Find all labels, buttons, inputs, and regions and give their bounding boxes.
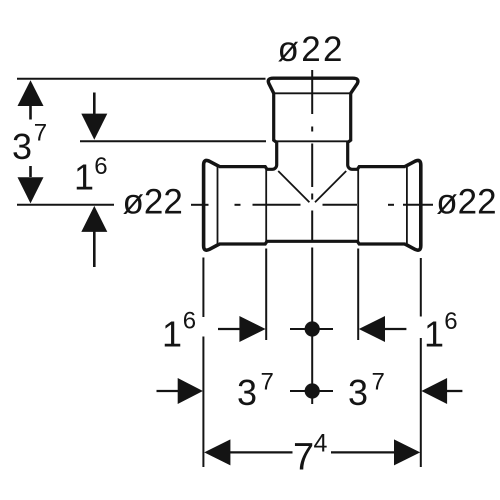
top socket insertion stop line	[275, 140, 349, 142]
center dot row 2	[305, 383, 320, 398]
top flare junction line	[275, 92, 351, 94]
svg-text:6: 6	[94, 153, 107, 180]
svg-text:1: 1	[74, 157, 94, 198]
dim 3.7 vertical: lower arrowhead	[18, 177, 44, 203]
left socket flare bead	[204, 160, 220, 250]
svg-text:3: 3	[12, 126, 32, 167]
dim 1.6 bottom-right: arrow tail	[384, 328, 406, 330]
svg-text:7: 7	[261, 369, 274, 396]
leader line right of label ø22 left	[191, 204, 203, 206]
dim 1.6 vertical: lower arrowhead	[81, 206, 107, 232]
top branch flare bead	[268, 78, 358, 93]
dim 1.6 vertical: upper arrowhead	[81, 114, 107, 140]
dim 7.4: left arrowhead	[204, 439, 230, 465]
dim 3.7 bottom-right: arrowhead	[421, 378, 447, 404]
horizontal centerline dash 2	[253, 204, 301, 206]
dim 3.7 bottom-left: arrowhead	[178, 378, 203, 404]
dim 3.7 bottom-right: arrow tail	[447, 390, 463, 392]
svg-text:6: 6	[444, 308, 457, 335]
dim 1.6 vertical: upper arrow stem	[93, 93, 96, 115]
dim 1.6 bottom-left: arrow tail	[218, 328, 240, 330]
center tick row 1	[290, 328, 333, 330]
svg-text:ø22: ø22	[436, 182, 496, 221]
svg-text:ø22: ø22	[278, 30, 343, 69]
top socket right wall and body right wall	[348, 93, 406, 170]
branch junction diagonal left	[278, 171, 309, 202]
svg-text:3: 3	[348, 372, 368, 413]
right socket flare bead	[405, 160, 421, 250]
dim 7.4: dimension line right segment	[331, 451, 395, 453]
leader line left of label ø22 left	[17, 204, 114, 206]
vertical centerline dash 2	[311, 144, 313, 188]
svg-text:6: 6	[183, 308, 196, 335]
horizontal centerline dot 2	[388, 204, 394, 206]
dim 7.4: right arrowhead	[394, 439, 420, 465]
extension line below right flare (upper part)	[420, 258, 422, 317]
dim 3.7 vertical: lower arrow stem	[29, 166, 32, 177]
extension line below right insertion stop	[357, 249, 359, 341]
vertical centerline dot 1	[311, 127, 313, 132]
svg-text:1: 1	[424, 313, 444, 354]
top socket left wall and body left wall	[219, 93, 277, 170]
horizontal centerline dash 1	[204, 204, 209, 206]
branch junction diagonal right	[315, 171, 346, 202]
bottom outline of body and sockets	[219, 241, 405, 244]
extension line: socket insertion depth 1.6	[80, 140, 266, 142]
dim 3.7 vertical: upper arrow stem	[29, 105, 32, 120]
dim 7.4: dimension line left segment	[230, 451, 293, 453]
extension line below left insertion stop	[265, 249, 267, 341]
extension line below left flare (upper part)	[202, 258, 204, 318]
right socket insertion stop line	[357, 167, 359, 244]
dim 1.6 bottom-left: arrowhead	[239, 316, 265, 342]
extension line: top of fitting	[17, 78, 266, 80]
vertical centerline dot 2	[311, 194, 313, 200]
vertical centerline dash 3	[311, 211, 313, 241]
svg-text:3: 3	[237, 372, 257, 413]
center dot row 1	[305, 321, 320, 336]
horizontal centerline dot 1	[235, 204, 241, 206]
vertical centerline dash 4 (below fitting)	[311, 248, 313, 405]
right flare junction line	[406, 167, 408, 244]
center tick row 2	[290, 390, 333, 392]
horizontal centerline dash 3	[323, 204, 358, 206]
left socket insertion stop line	[265, 167, 267, 244]
svg-text:7: 7	[34, 120, 47, 147]
dim 1.6 bottom-right: arrowhead	[359, 316, 385, 342]
svg-text:ø22: ø22	[123, 182, 183, 221]
extension line below right flare (lower part)	[420, 338, 422, 467]
svg-text:1: 1	[162, 313, 182, 354]
svg-text:7: 7	[293, 437, 314, 479]
dim 3.7 vertical: upper arrowhead	[18, 80, 44, 106]
extension line below left flare (lower part)	[202, 337, 204, 468]
horizontal centerline dash 4	[403, 204, 433, 206]
vertical centerline dash 1	[311, 70, 313, 114]
svg-text:4: 4	[314, 430, 328, 458]
dim 3.7 bottom-left: arrow tail	[157, 390, 179, 392]
left flare junction line	[217, 167, 219, 244]
svg-text:7: 7	[372, 369, 385, 396]
dim 1.6 vertical: lower arrow stem	[93, 231, 96, 267]
